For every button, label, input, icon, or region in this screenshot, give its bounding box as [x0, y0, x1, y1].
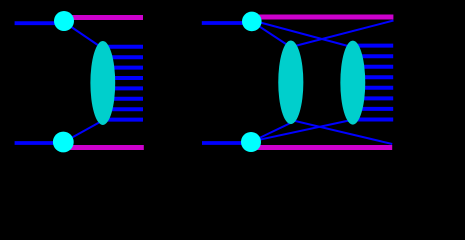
node: interaction blob 1 (right diagram, left ellipse) [278, 41, 303, 125]
wire: spectator line from blob 1 to right (bottom) [291, 120, 392, 144]
node: hadron blob (top right circle) [242, 12, 262, 32]
wire: outgoing line 6 of right fan [351, 96, 393, 100]
wire: diagonal parton to blob 2 (top) [251, 20, 348, 46]
node: hadron blob (bottom right circle) [241, 132, 261, 152]
wire: diagonal parton into blob (bottom left) [64, 122, 100, 142]
wire: diagonal parton to blob 1 (bottom) [251, 124, 290, 143]
wire: incoming parton line (top left, blue) [15, 21, 60, 25]
wire: outgoing line 1 of right fan [351, 44, 393, 48]
wire: outgoing line 7 of left fan [101, 107, 143, 111]
wire: incoming parton line (bottom right, blue) [202, 141, 247, 145]
node: hadron blob (bottom left circle) [53, 132, 74, 153]
wire: outgoing line 5 of right fan [351, 86, 393, 90]
wire: outgoing line 2 of left fan [101, 55, 143, 59]
wire: beam remnant line (bottom right, magenta) [250, 145, 392, 150]
wire: diagonal parton to blob 2 (bottom) [251, 121, 349, 142]
wire: beam remnant line (top left, magenta) [63, 15, 143, 20]
wire: outgoing line 3 of left fan [101, 66, 143, 70]
wire: outgoing line 6 of left fan [101, 97, 143, 101]
wire: beam remnant line (top right, magenta) [250, 15, 393, 20]
wire: incoming parton line (top right, blue) [202, 21, 247, 25]
wire: spectator line from blob 1 to right (top) [291, 21, 394, 48]
wire: outgoing line 4 of right fan [351, 75, 393, 79]
node: hadron blob (top left circle) [54, 11, 74, 31]
wire: outgoing line 5 of left fan [101, 86, 143, 90]
wire: diagonal parton to blob 1 (top) [251, 21, 292, 48]
wire: outgoing line 8 of right fan [351, 118, 393, 122]
wire: outgoing line 7 of right fan [351, 107, 393, 111]
wire: diagonal parton into blob (top left) [64, 22, 100, 47]
node: interaction blob (left diagram ellipse) [90, 41, 115, 125]
wire: outgoing line 4 of left fan [101, 76, 143, 80]
wire: incoming parton line (bottom left, blue) [15, 141, 60, 145]
node: interaction blob 2 (right diagram, right ellipse) [340, 41, 365, 125]
wire: outgoing line 3 of right fan [351, 65, 393, 69]
wire: beam remnant line (bottom left, magenta) [63, 145, 144, 150]
wire: outgoing line 1 of left fan [101, 45, 143, 49]
wire: outgoing line 2 of right fan [351, 54, 393, 58]
wire: outgoing line 8 of left fan [101, 118, 143, 122]
